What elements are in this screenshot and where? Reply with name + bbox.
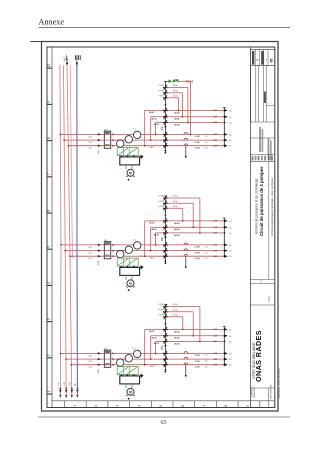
- motor M2 ground dot: [128, 289, 130, 291]
- svg-text:-1.5M: -1.5M: [194, 142, 199, 144]
- svg-text:2.5: 2.5: [205, 252, 209, 254]
- svg-text:4x95: 4x95: [64, 56, 66, 62]
- svg-text:6: 6: [181, 405, 185, 407]
- contactor C3 vertical: [164, 304, 166, 371]
- svg-text:-1.5M: -1.5M: [194, 148, 199, 150]
- svg-text:97-98: 97-98: [159, 91, 164, 93]
- bottom reference band: [52, 400, 275, 402]
- inner drawing frame: [47, 47, 275, 408]
- thermal relay F3 green: [117, 367, 138, 375]
- rail bottom arrows: [60, 388, 62, 390]
- svg-text:5: 5: [159, 405, 163, 407]
- svg-text:8: 8: [47, 137, 51, 139]
- svg-text:STEP SUD MELIANE: STEP SUD MELIANE: [252, 342, 256, 379]
- pump 1 feed wires from rails: [60, 133, 104, 135]
- svg-text:C3: C3: [160, 346, 164, 350]
- svg-text:a: a: [265, 59, 268, 61]
- svg-text:1: 1: [221, 361, 222, 363]
- svg-text:4-0: 4-0: [229, 353, 232, 355]
- svg-text:-M02: -M02: [149, 257, 155, 259]
- pump 2 control tap wires: [144, 221, 146, 256]
- terminal box arrow: [140, 374, 143, 378]
- svg-text:-M01: -M01: [149, 147, 155, 149]
- footer rule: [38, 416, 290, 418]
- current transformer T3b: [125, 355, 132, 362]
- svg-text:48-49: 48-49: [174, 228, 180, 231]
- svg-text:46-47: 46-47: [152, 118, 158, 121]
- pump 2 power lines to terminals: [141, 244, 224, 246]
- pump 2 wires breaker to transformers: [111, 244, 134, 246]
- svg-text:46-47: 46-47: [152, 337, 158, 340]
- svg-text:97-98: 97-98: [159, 304, 164, 306]
- svg-text:4-0: 4-0: [229, 117, 232, 119]
- power rail L2: [64, 66, 67, 395]
- title block strip: [249, 47, 251, 408]
- svg-text:1: 1: [221, 229, 222, 231]
- svg-text:1: 1: [221, 366, 222, 368]
- svg-text:48-49: 48-49: [174, 330, 180, 333]
- svg-text:48-49: 48-49: [174, 234, 180, 237]
- overload hops on power lines: [184, 133, 188, 135]
- header rule: [39, 27, 291, 29]
- svg-text:4-06: 4-06: [88, 253, 93, 255]
- svg-text:97-98: 97-98: [159, 310, 164, 312]
- terminal box X3: [120, 376, 140, 384]
- svg-text:4-05: 4-05: [88, 355, 93, 357]
- current transformer T1c: [134, 131, 141, 138]
- terminal box arrow: [140, 265, 143, 269]
- svg-text:-1.5M: -1.5M: [194, 247, 199, 249]
- svg-text:2.5: 2.5: [205, 136, 209, 138]
- aux contact wires: [167, 306, 200, 308]
- svg-text:4-0: 4-0: [229, 256, 232, 258]
- terminal box X2: [120, 267, 140, 275]
- svg-text:10: 10: [47, 64, 51, 68]
- svg-text:1: 1: [221, 136, 222, 138]
- svg-text:1: 1: [221, 252, 222, 254]
- svg-text:-1.5M: -1.5M: [194, 361, 199, 363]
- drawing title cell: [268, 162, 270, 280]
- svg-text:4: 4: [137, 405, 141, 407]
- svg-text:C1: C1: [160, 127, 164, 131]
- power rail PE blue: [76, 64, 79, 394]
- current transformer T2b: [125, 246, 132, 253]
- svg-text:65: 65: [269, 59, 273, 63]
- svg-text:1Q2: 1Q2: [98, 260, 100, 265]
- svg-text:4-0: 4-0: [229, 359, 232, 361]
- svg-text:4: 4: [47, 282, 51, 284]
- svg-text:49-50: 49-50: [173, 310, 178, 312]
- svg-text:1: 1: [221, 258, 222, 260]
- pump 2 feed arrowheads: [98, 244, 101, 246]
- svg-text:8: 8: [224, 405, 228, 407]
- folio row: [250, 279, 274, 281]
- svg-text:1: 1: [72, 405, 76, 407]
- title block dividers: [250, 121, 274, 123]
- svg-text:1: 1: [221, 124, 222, 126]
- svg-text:1: 1: [221, 223, 222, 225]
- svg-text:48-49: 48-49: [174, 118, 180, 121]
- aux contact wires: [167, 197, 200, 199]
- rail PE top arrow: [76, 60, 78, 64]
- motor cable green: [125, 165, 127, 170]
- svg-text:7: 7: [47, 173, 51, 175]
- svg-text:-1.5M: -1.5M: [194, 252, 199, 254]
- pump 3 wires breaker to transformers: [111, 352, 134, 354]
- pump 1 control tap wires: [144, 110, 146, 145]
- svg-text:1: 1: [221, 343, 222, 345]
- svg-text:2: 2: [47, 354, 51, 356]
- svg-text:4-0: 4-0: [229, 329, 232, 331]
- svg-text:2: 2: [94, 405, 98, 407]
- svg-text:97-98: 97-98: [159, 315, 164, 317]
- svg-text:1: 1: [221, 331, 222, 333]
- svg-text:4-0: 4-0: [229, 336, 232, 338]
- svg-text:1Q1: 1Q1: [98, 150, 100, 155]
- svg-text:1: 1: [47, 390, 51, 392]
- svg-text:contrat: contrat: [267, 296, 270, 303]
- svg-text:48-49: 48-49: [174, 123, 180, 126]
- motor M3: [127, 388, 134, 395]
- svg-text:2.5: 2.5: [205, 361, 209, 363]
- revision table box: [250, 50, 274, 66]
- terminal box arrow: [140, 155, 143, 159]
- svg-text:49-50: 49-50: [173, 206, 178, 208]
- motor M1 ground dot: [128, 179, 130, 181]
- svg-text:Circuit de puissance de 3 pomp: Circuit de puissance de 3 pompes: [259, 166, 264, 236]
- overload hops on power lines: [184, 243, 188, 245]
- thermal contact FR green symbol: [165, 80, 168, 82]
- svg-text:65: 65: [161, 420, 167, 426]
- svg-text:4-0: 4-0: [229, 134, 232, 136]
- pump 1 control lines: [145, 109, 225, 111]
- svg-text:48-49: 48-49: [174, 342, 180, 345]
- svg-text:1: 1: [221, 337, 222, 339]
- pump 1 power lines to terminals: [141, 133, 224, 135]
- svg-text:3: 3: [47, 318, 51, 320]
- motor cable green: [125, 275, 127, 280]
- contactor C3 contacts: [164, 304, 167, 309]
- svg-text:1-02: 1-02: [64, 381, 66, 386]
- svg-text:C2: C2: [160, 237, 164, 241]
- revision table columns: [250, 66, 252, 123]
- svg-text:ONAS 2004: ONAS 2004: [253, 386, 256, 398]
- terminal strip arrows pump 3: [223, 327, 225, 367]
- svg-text:2.5: 2.5: [205, 367, 209, 369]
- FR wire: [178, 80, 190, 82]
- svg-text:4-0: 4-0: [229, 245, 232, 247]
- pump 3 control tap wires: [144, 329, 146, 364]
- svg-text:1: 1: [221, 235, 222, 237]
- terminal strip arrows pump 2: [223, 218, 225, 258]
- contactor C2 vertical: [164, 196, 166, 263]
- svg-text:4-0: 4-0: [229, 140, 232, 142]
- svg-text:2.5: 2.5: [205, 247, 209, 249]
- svg-text:-1.5M: -1.5M: [194, 136, 199, 138]
- svg-text:4-0: 4-0: [229, 221, 232, 223]
- svg-text:48-49: 48-49: [174, 111, 180, 114]
- svg-text:4-05: 4-05: [88, 136, 93, 138]
- svg-text:49-50: 49-50: [173, 315, 178, 317]
- svg-text:2.5: 2.5: [205, 258, 209, 260]
- current transformer T2c: [134, 242, 141, 249]
- pump 2 control lines: [145, 220, 225, 222]
- svg-text:-1.5M: -1.5M: [194, 367, 199, 369]
- pump 3 control lines: [145, 328, 225, 330]
- svg-text:1Q3: 1Q3: [98, 369, 100, 374]
- thermal relay F2 green: [117, 258, 138, 266]
- current transformer T1a: [117, 140, 124, 147]
- svg-text:97-98: 97-98: [159, 196, 164, 198]
- power rail L1: [60, 65, 61, 395]
- svg-text:T1: T1: [133, 240, 136, 242]
- svg-text:97-98: 97-98: [159, 96, 164, 98]
- svg-text:49-50: 49-50: [173, 201, 178, 203]
- svg-text:1: 1: [221, 118, 222, 120]
- svg-text:49-50: 49-50: [173, 304, 178, 306]
- contactor C1 contacts: [164, 85, 167, 90]
- svg-text:T1: T1: [133, 129, 136, 131]
- current transformer T3c: [134, 350, 141, 357]
- svg-text:STEP SUD MEL: STEP SUD MEL: [271, 383, 273, 399]
- svg-text:4-0: 4-0: [229, 233, 232, 235]
- overload hops on power lines: [184, 352, 188, 354]
- svg-text:48-49: 48-49: [174, 337, 180, 340]
- current transformer T2a: [117, 250, 124, 257]
- svg-text:Armoire de puissance et de com: Armoire de puissance et de commande: [254, 178, 258, 234]
- svg-text:1: 1: [221, 247, 222, 249]
- thermal relay F1 green: [117, 148, 138, 156]
- svg-text:46-47: 46-47: [154, 123, 160, 126]
- svg-text:9: 9: [47, 101, 51, 103]
- svg-text:97-98: 97-98: [159, 201, 164, 203]
- power rail L3: [67, 64, 72, 394]
- motor M3 ground dot: [128, 398, 130, 400]
- svg-text:Laboratoire Genie Electrique: Laboratoire Genie Electrique: [278, 368, 281, 399]
- svg-text:46-47: 46-47: [149, 111, 155, 114]
- svg-text:2.5: 2.5: [205, 355, 209, 357]
- pump 3 feed arrowheads: [98, 352, 101, 354]
- rail L3 top arrow: [66, 60, 68, 64]
- svg-text:1-01: 1-01: [58, 381, 60, 386]
- svg-text:49-50: 49-50: [173, 96, 178, 98]
- svg-text:1: 1: [221, 147, 222, 149]
- current transformer T3a: [117, 359, 124, 366]
- svg-text:0: 0: [256, 59, 260, 61]
- pump 3 power lines to terminals: [141, 352, 224, 354]
- svg-text:46-47: 46-47: [149, 222, 155, 225]
- svg-text:4-0: 4-0: [229, 365, 232, 367]
- svg-text:7: 7: [203, 405, 207, 407]
- svg-text:4-07: 4-07: [88, 148, 93, 150]
- svg-text:97-98: 97-98: [159, 206, 164, 208]
- overload drop wire: [185, 365, 187, 376]
- svg-text:-1.5M: -1.5M: [194, 355, 199, 357]
- svg-text:4-05: 4-05: [88, 247, 93, 249]
- svg-text:4-06: 4-06: [88, 142, 93, 144]
- motor M1: [127, 169, 134, 176]
- pump 1 feed arrowheads: [98, 133, 101, 135]
- svg-text:Annexe: Annexe: [39, 17, 65, 26]
- svg-text:4-0: 4-0: [229, 110, 232, 112]
- svg-text:9: 9: [246, 405, 250, 407]
- overload drop wire: [185, 146, 187, 157]
- svg-text:CONTRACT: CONTRACT: [250, 386, 253, 398]
- left reference band: [51, 47, 53, 408]
- svg-text:4-06: 4-06: [88, 361, 93, 363]
- svg-text:4-0: 4-0: [229, 227, 232, 229]
- svg-text:4-0: 4-0: [229, 122, 232, 124]
- aux contact wires: [167, 87, 188, 89]
- pump 2 feed wires from rails: [61, 244, 104, 246]
- svg-text:4-07: 4-07: [88, 258, 93, 260]
- svg-text:5: 5: [47, 246, 51, 248]
- terminal strip arrows pump 1: [223, 108, 225, 148]
- svg-text:46-47: 46-47: [152, 228, 158, 231]
- svg-text:2.5: 2.5: [205, 142, 209, 144]
- svg-text:4-0: 4-0: [229, 341, 232, 343]
- svg-text:97-98: 97-98: [159, 85, 164, 87]
- svg-text:3: 3: [116, 405, 120, 407]
- terminal box X1: [120, 157, 140, 165]
- pump 1 wires breaker to transformers: [111, 133, 134, 135]
- svg-text:4-07: 4-07: [88, 367, 93, 369]
- contactor C1 vertical: [164, 81, 166, 152]
- svg-text:46-47: 46-47: [149, 330, 155, 333]
- svg-text:1: 1: [221, 355, 222, 357]
- svg-text:L1: L1: [260, 279, 263, 282]
- svg-text:49-50: 49-50: [173, 85, 178, 87]
- svg-text:1: 1: [221, 142, 222, 144]
- svg-text:46-47: 46-47: [154, 234, 160, 237]
- svg-text:6: 6: [47, 209, 51, 211]
- svg-text:49-50: 49-50: [173, 91, 178, 93]
- svg-text:48-49: 48-49: [174, 222, 180, 225]
- svg-text:-1.5M: -1.5M: [194, 258, 199, 260]
- svg-text:46-47: 46-47: [154, 342, 160, 345]
- outer sheet border: [42, 42, 279, 412]
- motor cable green: [125, 384, 127, 389]
- contactor C2 contacts: [164, 195, 167, 200]
- rail top labels: [65, 59, 68, 61]
- svg-text:-M03: -M03: [149, 366, 155, 368]
- svg-text:Armoire electrique principale: Armoire electrique principale - dep. pom…: [270, 177, 274, 236]
- svg-text:4-0: 4-0: [229, 251, 232, 253]
- motor M2: [127, 280, 134, 287]
- power rail N: [70, 65, 72, 258]
- svg-text:49-50: 49-50: [173, 196, 178, 198]
- svg-text:2.5: 2.5: [205, 148, 209, 150]
- svg-text:T1: T1: [133, 348, 136, 350]
- overload drop wire: [185, 256, 187, 267]
- current transformer T1b: [125, 136, 132, 143]
- svg-text:1: 1: [221, 112, 222, 114]
- pump 3 feed wires from rails: [61, 352, 105, 354]
- svg-text:4-0: 4-0: [229, 146, 232, 148]
